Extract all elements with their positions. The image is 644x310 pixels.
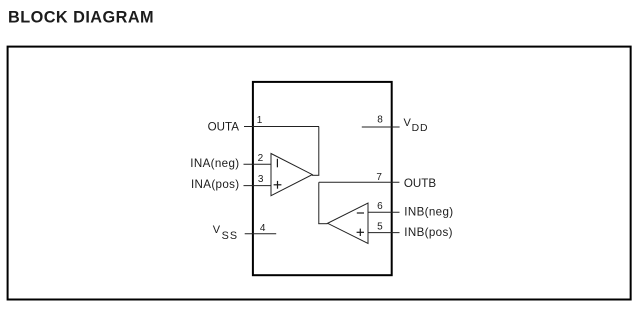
wire pin 1 OUTA horizontal (244, 126, 319, 128)
svg-text:3: 3 (258, 174, 264, 185)
op-amp A inverting input marker (276, 159, 278, 168)
svg-text:INA(pos): INA(pos) (191, 178, 240, 191)
svg-text:4: 4 (260, 223, 266, 234)
wire OUTB vertical to op-amp B output (318, 182, 320, 223)
wire pin 8 VDD (362, 126, 400, 128)
IC package outline U1 (253, 82, 392, 275)
wire pin 4 VSS (245, 233, 277, 235)
op-amp B non-inverting input marker (357, 229, 364, 236)
svg-text:OUTB: OUTB (404, 177, 436, 190)
op-amp B inverting input marker (357, 212, 364, 214)
wire pin 3 INA(pos) (244, 185, 272, 187)
wire pin 7 OUTB horizontal (319, 181, 400, 183)
wire pin 5 INB(pos) (368, 232, 400, 234)
svg-text:7: 7 (376, 172, 382, 183)
wire OUTA vertical to op-amp A output (318, 127, 320, 176)
svg-text:2: 2 (258, 153, 264, 164)
svg-text:INB(pos): INB(pos) (404, 226, 453, 239)
svg-text:1: 1 (257, 115, 263, 126)
wire pin 2 INA(neg) (244, 163, 272, 165)
svg-text:8: 8 (377, 114, 383, 125)
svg-text:5: 5 (377, 222, 383, 233)
op-amp A (271, 154, 312, 196)
op-amp B (328, 203, 368, 244)
svg-text:BLOCK DIAGRAM: BLOCK DIAGRAM (8, 9, 154, 27)
wire pin 6 INB(neg) (368, 211, 400, 213)
svg-text:INB(neg): INB(neg) (404, 206, 453, 219)
svg-text:INA(neg): INA(neg) (190, 157, 239, 170)
op-amp A non-inverting input marker (274, 181, 282, 189)
wire op-amp A output stub (312, 174, 319, 176)
svg-text:6: 6 (377, 201, 383, 212)
wire op-amp B output stub (318, 223, 327, 225)
svg-text:OUTA: OUTA (208, 121, 240, 134)
